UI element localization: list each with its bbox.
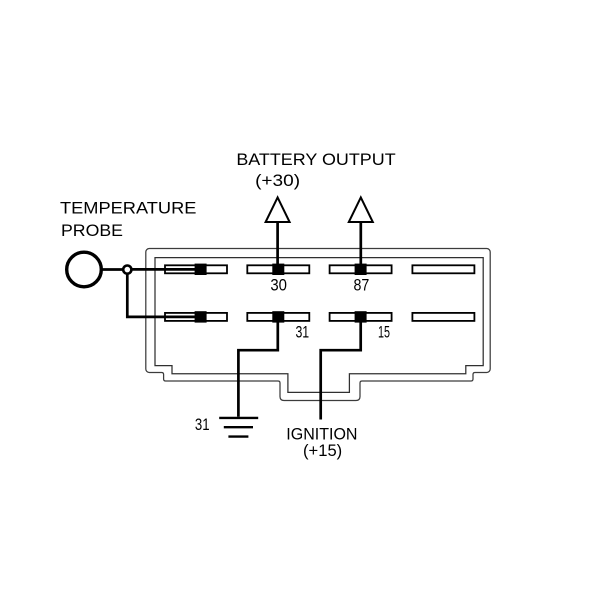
svg-text:PROBE: PROBE — [61, 221, 123, 240]
contact square row1 col1 — [195, 264, 207, 275]
pin slot row1 col1 — [165, 265, 227, 273]
contact square terminal 31 — [272, 311, 284, 322]
svg-text:87: 87 — [354, 276, 370, 295]
pin slot row1 col2 (terminal 30) — [247, 265, 309, 273]
svg-text:TEMPERATURE: TEMPERATURE — [60, 199, 196, 218]
temperature probe sensor circle — [67, 252, 102, 287]
contact square terminal 87 — [355, 264, 367, 275]
contact square terminal 30 — [272, 264, 284, 275]
svg-text:BATTERY OUTPUT: BATTERY OUTPUT — [236, 150, 395, 169]
contact square terminal 15 — [355, 311, 367, 322]
pin slot row2 col4 (unused) — [412, 313, 474, 321]
wire terminal 87 up to battery arrow — [359, 222, 362, 268]
svg-text:15: 15 — [378, 323, 390, 342]
wire terminal 15 down to ignition — [321, 320, 361, 420]
pin slot row2 col3 (terminal 15) — [330, 313, 392, 321]
svg-text:31: 31 — [295, 323, 309, 342]
battery output arrow (87) — [349, 197, 373, 222]
pin slot row1 col4 (unused) — [412, 265, 474, 273]
svg-text:(+30): (+30) — [255, 171, 300, 190]
svg-text:31: 31 — [195, 415, 210, 434]
battery output arrow (+30) — [266, 197, 290, 222]
wire junction down to pin row2 col1 — [127, 273, 200, 317]
wire terminal 30 up to battery arrow — [276, 222, 279, 268]
contact square row2 col1 — [195, 311, 207, 322]
pin slot row1 col3 (terminal 87) — [330, 265, 392, 273]
svg-text:30: 30 — [270, 276, 287, 295]
wire terminal 31 down to ground — [238, 320, 277, 417]
junction node circle — [123, 266, 131, 274]
svg-text:(+15): (+15) — [303, 441, 342, 460]
connector housing outer outline — [146, 249, 490, 401]
connector housing inner outline — [155, 258, 483, 393]
pin slot row2 col1 — [165, 313, 227, 321]
wire probe to junction node — [101, 268, 124, 271]
wire junction to pin row1 col1 — [131, 268, 200, 271]
ground symbol — [219, 418, 258, 437]
pin slot row2 col2 (terminal 31) — [247, 313, 309, 321]
